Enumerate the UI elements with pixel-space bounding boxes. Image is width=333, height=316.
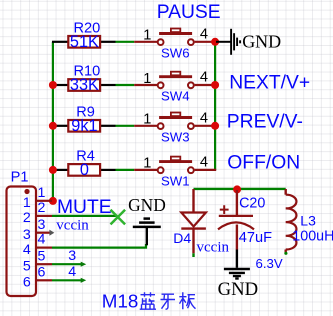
svg-text:9k1: 9k1 (71, 117, 97, 135)
svg-text:0: 0 (80, 161, 89, 179)
svg-text:4: 4 (200, 27, 208, 43)
svg-text:MUTE: MUTE (57, 197, 112, 218)
svg-text:L3: L3 (300, 212, 316, 228)
svg-text:4: 4 (200, 111, 208, 127)
svg-text:4: 4 (23, 242, 31, 258)
svg-text:1: 1 (143, 71, 151, 87)
svg-text:vccin: vccin (197, 239, 230, 255)
svg-text:PREV/V-: PREV/V- (227, 111, 303, 132)
svg-text:D4: D4 (173, 230, 191, 246)
svg-text:6: 6 (38, 264, 46, 280)
svg-text:47uF: 47uF (239, 230, 272, 246)
svg-text:3: 3 (23, 227, 31, 243)
svg-text:4: 4 (200, 155, 208, 171)
svg-text:3: 3 (68, 248, 76, 264)
svg-text:51K: 51K (70, 33, 99, 51)
svg-text:5: 5 (23, 259, 31, 275)
svg-text:vccin: vccin (56, 217, 89, 233)
svg-text:NEXT/V+: NEXT/V+ (229, 73, 310, 94)
svg-text:100uH: 100uH (292, 228, 333, 244)
svg-text:SW3: SW3 (161, 129, 190, 144)
svg-text:C20: C20 (239, 196, 265, 212)
svg-text:1: 1 (143, 112, 151, 128)
svg-text:SW4: SW4 (161, 89, 190, 104)
svg-text:OFF/ON: OFF/ON (227, 152, 300, 173)
svg-text:5: 5 (38, 248, 46, 264)
svg-text:6.3V: 6.3V (256, 256, 283, 271)
svg-text:1: 1 (143, 156, 151, 172)
svg-text:SW6: SW6 (161, 45, 190, 60)
svg-text:M18: M18 (102, 291, 139, 312)
svg-text:33K: 33K (70, 76, 99, 94)
svg-text:PAUSE: PAUSE (157, 2, 221, 23)
svg-text:4: 4 (38, 232, 46, 248)
svg-text:GND: GND (218, 279, 259, 300)
svg-text:SW1: SW1 (161, 174, 190, 189)
svg-text:4: 4 (200, 70, 208, 86)
svg-text:3: 3 (38, 217, 46, 233)
svg-text:6: 6 (23, 275, 31, 291)
svg-text:2: 2 (38, 200, 46, 216)
svg-text:2: 2 (23, 210, 31, 226)
svg-text:GND: GND (242, 31, 281, 51)
svg-text:P1: P1 (11, 169, 29, 185)
svg-text:1: 1 (38, 185, 46, 201)
svg-text:4: 4 (68, 264, 76, 280)
svg-text:1: 1 (23, 195, 31, 211)
svg-text:GND: GND (128, 195, 166, 215)
svg-text:1: 1 (143, 28, 151, 44)
